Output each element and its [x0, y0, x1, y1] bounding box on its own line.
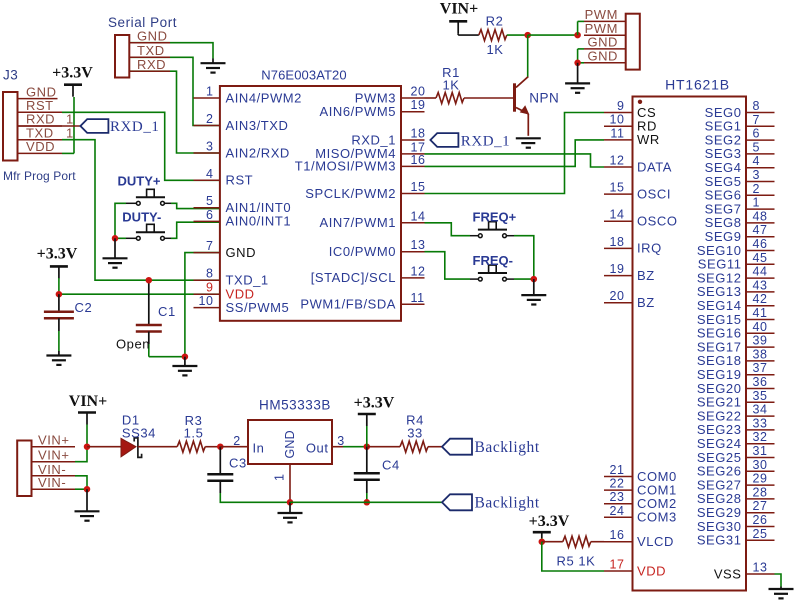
svg-text:18: 18	[411, 127, 426, 141]
svg-text:DATA: DATA	[637, 159, 672, 174]
svg-text:VIN-: VIN-	[38, 475, 66, 490]
svg-text:44: 44	[753, 265, 768, 279]
svg-text:12: 12	[609, 154, 624, 168]
svg-text:46: 46	[753, 237, 768, 251]
svg-text:SEG22: SEG22	[697, 408, 742, 423]
svg-text:20: 20	[609, 289, 624, 303]
svg-text:TXD_1: TXD_1	[226, 273, 269, 288]
svg-text:SEG19: SEG19	[697, 367, 742, 382]
svg-text:+3.3V: +3.3V	[529, 513, 570, 530]
svg-text:WR: WR	[637, 132, 660, 147]
svg-text:1K: 1K	[442, 78, 459, 93]
svg-text:11: 11	[411, 291, 425, 305]
svg-text:SEG11: SEG11	[698, 257, 742, 272]
svg-text:13: 13	[753, 561, 768, 575]
svg-text:33: 33	[407, 426, 423, 441]
svg-text:C3: C3	[229, 456, 247, 471]
svg-text:9: 9	[617, 99, 625, 113]
svg-text:+3.3V: +3.3V	[52, 65, 93, 82]
svg-text:9: 9	[206, 281, 214, 295]
svg-text:11: 11	[610, 126, 624, 140]
svg-text:VIN+: VIN+	[38, 433, 69, 448]
svg-text:SEG18: SEG18	[697, 353, 742, 368]
svg-text:PWM1/FB/SDA: PWM1/FB/SDA	[300, 297, 396, 312]
svg-text:VIN+: VIN+	[440, 1, 478, 18]
svg-text:17: 17	[609, 558, 624, 572]
svg-text:FREQ-: FREQ-	[473, 253, 513, 268]
svg-text:6: 6	[753, 127, 761, 141]
svg-text:30: 30	[753, 458, 768, 472]
svg-text:SEG17: SEG17	[697, 339, 742, 354]
svg-text:+3.3V: +3.3V	[354, 395, 395, 412]
svg-text:32: 32	[753, 430, 768, 444]
svg-text:C1: C1	[158, 304, 176, 319]
svg-text:SS34: SS34	[122, 426, 156, 441]
svg-text:27: 27	[753, 499, 768, 513]
svg-text:SEG21: SEG21	[697, 395, 742, 410]
svg-text:23: 23	[609, 490, 624, 504]
svg-text:VIN+: VIN+	[69, 393, 107, 410]
svg-text:SEG1: SEG1	[705, 119, 742, 134]
svg-text:SEG27: SEG27	[697, 477, 742, 492]
svg-text:SEG12: SEG12	[697, 270, 742, 285]
svg-text:15: 15	[609, 181, 624, 195]
svg-text:15: 15	[411, 180, 426, 194]
svg-text:GND: GND	[587, 35, 618, 50]
svg-text:8: 8	[206, 267, 214, 281]
svg-text:43: 43	[753, 278, 768, 292]
svg-text:Backlight: Backlight	[475, 495, 540, 512]
svg-text:In: In	[253, 441, 265, 456]
svg-text:3: 3	[206, 140, 214, 154]
svg-text:SEG5: SEG5	[705, 174, 742, 189]
svg-text:29: 29	[753, 472, 768, 486]
svg-text:1.5: 1.5	[184, 426, 204, 441]
svg-text:2: 2	[233, 434, 241, 448]
svg-text:AIN4/PWM2: AIN4/PWM2	[226, 90, 302, 105]
svg-text:4: 4	[753, 154, 761, 168]
svg-text:Open: Open	[116, 337, 150, 352]
svg-text:13: 13	[411, 238, 426, 252]
svg-text:1: 1	[753, 196, 761, 210]
svg-text:19: 19	[411, 98, 426, 112]
svg-text:SEG29: SEG29	[697, 505, 742, 520]
svg-text:C2: C2	[75, 300, 93, 315]
svg-text:12: 12	[411, 264, 426, 278]
svg-text:HT1621B: HT1621B	[665, 77, 730, 93]
svg-text:J3: J3	[3, 68, 18, 83]
svg-text:5: 5	[753, 140, 761, 154]
svg-text:33: 33	[753, 416, 768, 430]
svg-text:GND: GND	[587, 49, 618, 64]
svg-text:36: 36	[753, 375, 768, 389]
svg-text:VDD: VDD	[26, 139, 55, 154]
svg-text:22: 22	[609, 477, 624, 491]
svg-text:SEG10: SEG10	[697, 243, 742, 258]
svg-text:26: 26	[753, 513, 768, 527]
svg-text:SEG4: SEG4	[705, 160, 742, 175]
svg-text:42: 42	[753, 292, 768, 306]
svg-text:NPN: NPN	[529, 91, 559, 106]
svg-text:SEG28: SEG28	[697, 491, 742, 506]
svg-text:GND: GND	[137, 28, 168, 43]
svg-text:[STADC]/SCL: [STADC]/SCL	[311, 270, 396, 285]
svg-text:PWM: PWM	[585, 7, 618, 22]
svg-text:4: 4	[206, 167, 214, 181]
svg-text:VSS: VSS	[714, 566, 742, 581]
svg-text:SEG3: SEG3	[705, 146, 742, 161]
svg-text:SEG2: SEG2	[705, 132, 742, 147]
svg-text:RXD_1: RXD_1	[351, 132, 396, 147]
svg-text:1: 1	[206, 85, 214, 99]
svg-text:HM53333B: HM53333B	[259, 398, 331, 413]
svg-text:38: 38	[753, 347, 768, 361]
svg-text:AIN6/PWM5: AIN6/PWM5	[320, 104, 396, 119]
svg-text:20: 20	[411, 85, 426, 99]
svg-text:AIN2/RXD: AIN2/RXD	[226, 145, 290, 160]
svg-text:SEG13: SEG13	[697, 284, 742, 299]
svg-text:IC0/PWM0: IC0/PWM0	[329, 244, 396, 259]
svg-text:1K: 1K	[486, 42, 503, 57]
svg-text:2: 2	[753, 182, 761, 196]
svg-text:IRQ: IRQ	[637, 241, 662, 256]
svg-text:SEG26: SEG26	[697, 464, 742, 479]
svg-text:C4: C4	[382, 458, 400, 473]
svg-text:N76E003AT20: N76E003AT20	[261, 68, 346, 83]
svg-text:COM3: COM3	[637, 510, 677, 525]
svg-text:3: 3	[753, 168, 761, 182]
svg-text:OSCO: OSCO	[637, 214, 677, 229]
svg-text:SEG15: SEG15	[697, 312, 742, 327]
svg-text:BZ: BZ	[637, 268, 655, 283]
svg-text:SPCLK/PWM2: SPCLK/PWM2	[305, 186, 396, 201]
svg-text:VIN+: VIN+	[38, 448, 69, 463]
svg-text:6: 6	[206, 208, 214, 222]
svg-text:+3.3V: +3.3V	[37, 246, 78, 263]
svg-text:39: 39	[753, 334, 768, 348]
svg-text:SEG6: SEG6	[705, 188, 742, 203]
svg-text:DUTY+: DUTY+	[118, 173, 161, 188]
svg-text:Out: Out	[306, 441, 329, 456]
svg-text:SEG9: SEG9	[705, 229, 742, 244]
svg-text:45: 45	[753, 251, 768, 265]
svg-text:SS/PWM5: SS/PWM5	[226, 300, 290, 315]
svg-text:1: 1	[273, 474, 287, 481]
svg-text:R5 1K: R5 1K	[557, 554, 596, 569]
svg-text:FREQ+: FREQ+	[473, 210, 517, 225]
svg-text:RXD_1: RXD_1	[461, 133, 510, 149]
svg-text:48: 48	[753, 209, 768, 223]
svg-text:RXD: RXD	[137, 57, 166, 72]
svg-text:21: 21	[609, 463, 624, 477]
svg-text:SEG30: SEG30	[697, 519, 742, 534]
svg-text:14: 14	[411, 209, 426, 223]
svg-text:RXD_1: RXD_1	[110, 119, 159, 135]
svg-text:34: 34	[753, 403, 768, 417]
svg-text:8: 8	[753, 99, 761, 113]
svg-text:7: 7	[206, 239, 214, 253]
svg-text:VLCD: VLCD	[637, 534, 674, 549]
svg-text:SEG14: SEG14	[697, 298, 742, 313]
svg-text:40: 40	[753, 320, 768, 334]
svg-text:AIN3/TXD: AIN3/TXD	[226, 118, 289, 133]
svg-text:1: 1	[66, 125, 74, 140]
svg-text:SEG0: SEG0	[705, 105, 742, 120]
svg-text:3: 3	[337, 434, 345, 448]
svg-text:5: 5	[206, 194, 214, 208]
svg-text:10: 10	[198, 294, 213, 308]
svg-text:SEG8: SEG8	[705, 215, 742, 230]
svg-text:16: 16	[609, 528, 624, 542]
svg-text:OSCI: OSCI	[637, 186, 671, 201]
svg-text:35: 35	[753, 389, 768, 403]
svg-text:14: 14	[609, 208, 624, 222]
svg-text:10: 10	[609, 113, 624, 127]
svg-text:SEG25: SEG25	[697, 450, 742, 465]
svg-text:19: 19	[609, 262, 624, 276]
svg-text:AIN0/INT1: AIN0/INT1	[226, 214, 292, 229]
svg-text:16: 16	[411, 153, 426, 167]
svg-text:SEG23: SEG23	[697, 422, 742, 437]
svg-text:T1/MOSI/PWM3: T1/MOSI/PWM3	[295, 159, 396, 174]
svg-text:SEG31: SEG31	[697, 533, 742, 548]
svg-text:SEG24: SEG24	[697, 436, 742, 451]
svg-text:AIN7/PWM1: AIN7/PWM1	[320, 215, 396, 230]
svg-text:Backlight: Backlight	[475, 439, 540, 456]
svg-text:VDD: VDD	[637, 563, 666, 578]
svg-text:24: 24	[609, 504, 624, 518]
svg-text:31: 31	[753, 444, 768, 458]
svg-text:GND: GND	[283, 430, 297, 458]
svg-text:41: 41	[753, 306, 768, 320]
svg-text:47: 47	[753, 223, 768, 237]
svg-text:2: 2	[206, 112, 214, 126]
svg-text:37: 37	[753, 361, 768, 375]
svg-text:RST: RST	[226, 173, 254, 188]
svg-text:SEG16: SEG16	[697, 326, 742, 341]
svg-text:28: 28	[753, 485, 768, 499]
svg-text:25: 25	[753, 527, 768, 541]
svg-text:SEG7: SEG7	[705, 201, 742, 216]
svg-text:TXD: TXD	[137, 43, 165, 58]
svg-text:DUTY-: DUTY-	[122, 209, 161, 224]
svg-text:R2: R2	[486, 13, 504, 28]
svg-text:18: 18	[609, 235, 624, 249]
svg-text:SEG20: SEG20	[697, 381, 742, 396]
svg-text:BZ: BZ	[637, 295, 655, 310]
svg-text:GND: GND	[226, 245, 257, 260]
svg-text:7: 7	[753, 113, 761, 127]
svg-text:Mfr Prog Port: Mfr Prog Port	[3, 169, 76, 183]
